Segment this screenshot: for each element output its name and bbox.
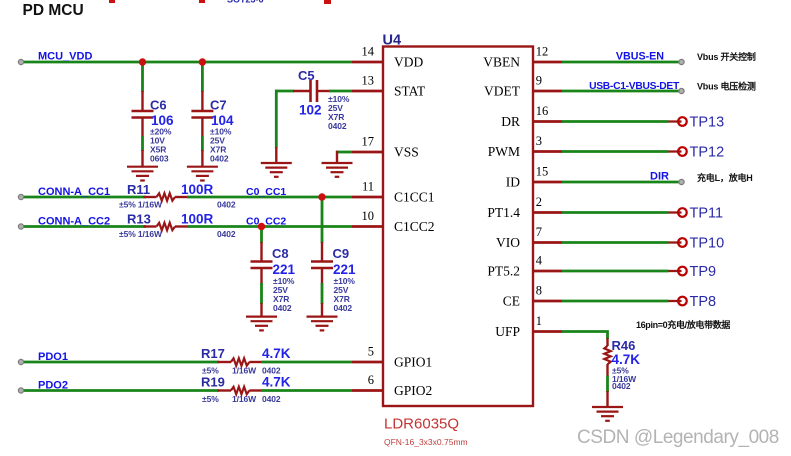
svg-text:2: 2 (536, 195, 542, 209)
pin 6 GPIO2 (U4 left) (352, 373, 432, 398)
svg-text:9: 9 (536, 74, 542, 88)
junction at C7 (199, 58, 206, 65)
test point TP11 (668, 208, 686, 217)
ground (C8) (246, 317, 277, 331)
svg-text:221: 221 (273, 262, 296, 277)
wire MCU_VDD (21, 61, 352, 64)
svg-text:PDO2: PDO2 (38, 379, 68, 391)
wire C6 bottom (green) (141, 136, 144, 151)
resistor R46 (604, 346, 610, 365)
svg-text:TP12: TP12 (690, 145, 725, 161)
wire R46 bottom (green) (606, 376, 609, 393)
svg-text:PT5.2: PT5.2 (487, 264, 520, 279)
wire C8 ground stub (260, 303, 262, 317)
wire C6 ground stub (141, 150, 143, 167)
test point TP9 (668, 267, 686, 276)
test point TP10 (668, 238, 686, 247)
svg-text:U4: U4 (383, 33, 402, 49)
svg-text:0402: 0402 (273, 303, 292, 313)
node MCU_VDD start dot (18, 59, 23, 64)
ground (C9) (307, 317, 338, 331)
svg-text:15: 15 (536, 165, 549, 179)
ground (VSS) (322, 163, 353, 177)
svg-text:LDR6035Q: LDR6035Q (384, 416, 459, 433)
top edge remnant mark 2 (199, 0, 205, 3)
svg-text:VIO: VIO (496, 235, 520, 250)
svg-text:C0_CC1: C0_CC1 (246, 186, 286, 198)
pin 13 STAT (U4 left) (352, 74, 426, 99)
node USB-C1-VBUS-DET end dot (679, 88, 684, 93)
node PDO1 start dot (18, 359, 23, 364)
svg-text:102: 102 (299, 103, 322, 118)
svg-text:±5% 1/16W: ±5% 1/16W (119, 200, 163, 210)
capacitor C9 (311, 262, 333, 269)
resistor R13 (157, 223, 176, 230)
wire PDO1 right (green) (261, 361, 352, 364)
resistor R46 leads (606, 338, 608, 377)
svg-text:PDO1: PDO1 (38, 351, 68, 363)
capacitor C7 leads (201, 91, 203, 136)
svg-text:充电L，放电H: 充电L，放电H (697, 172, 753, 183)
test point TP8 (668, 297, 686, 306)
svg-text:VSS: VSS (394, 145, 419, 160)
svg-text:12: 12 (536, 45, 549, 59)
top edge remnant mark 1 (109, 0, 115, 3)
svg-text:7: 7 (536, 225, 542, 239)
wire TP11 (green) (562, 211, 669, 214)
wire TP13 (green) (562, 120, 669, 123)
svg-text:0603: 0603 (150, 154, 169, 164)
svg-text:QFN-16_3x3x0.75mm: QFN-16_3x3x0.75mm (384, 437, 468, 447)
svg-text:0402: 0402 (334, 303, 353, 313)
ground (C5) (261, 163, 292, 177)
wire C7 top lead (green) (201, 63, 204, 92)
pin 12 VBEN (U4 right) (483, 45, 562, 70)
svg-text:100R: 100R (181, 182, 214, 197)
svg-text:0402: 0402 (328, 121, 347, 131)
wire C8 top (green) (260, 228, 263, 243)
pin 5 GPIO1 (U4 left) (352, 345, 432, 370)
svg-text:±5%: ±5% (202, 394, 219, 404)
pin 14 VDD (U4 left) (352, 45, 423, 70)
svg-text:DIR: DIR (650, 170, 669, 182)
wire CC1 right (green) (187, 196, 352, 199)
top edge remnant mark 3 (324, 0, 331, 4)
svg-text:DR: DR (501, 114, 520, 129)
svg-text:STAT: STAT (394, 84, 426, 99)
ground (C6) (127, 167, 158, 181)
svg-text:4.7K: 4.7K (262, 375, 291, 390)
pin 7 VIO (U4 right) (496, 225, 562, 250)
svg-text:C9: C9 (333, 246, 350, 261)
svg-text:TP11: TP11 (690, 206, 724, 222)
svg-text:PT1.4: PT1.4 (487, 205, 520, 220)
capacitor C5 leads (293, 90, 330, 92)
svg-text:C7: C7 (210, 98, 227, 113)
wire PDO2 right (green) (261, 389, 352, 392)
wire C5 ground stub (275, 147, 277, 163)
node CONN-A_CC1 start dot (18, 194, 23, 199)
svg-text:C8: C8 (272, 246, 289, 261)
wire VSS (green) (337, 151, 352, 154)
wire R46 ground stub (606, 391, 608, 407)
test point TP13 (668, 117, 686, 126)
pin 8 CE (U4 right) (503, 284, 562, 309)
svg-text:C1CC1: C1CC1 (394, 190, 435, 205)
resistor R17 leads (218, 361, 262, 363)
svg-text:C5: C5 (298, 68, 315, 83)
ground (C7) (187, 167, 218, 181)
node DIR end dot (679, 179, 684, 184)
resistor R11 (157, 193, 176, 200)
wire PDO2 left (green) (21, 389, 219, 392)
wire USB-C1-VBUS-DET (green) (562, 90, 680, 93)
svg-text:6: 6 (368, 373, 374, 387)
wire CONN-A_CC1 left (green) (21, 196, 146, 199)
node VBUS-EN end dot (679, 59, 684, 64)
svg-text:17: 17 (362, 135, 375, 149)
wire C7 ground stub (201, 150, 203, 167)
node CONN-A_CC2 start dot (18, 224, 23, 229)
pin 9 VDET (U4 right) (484, 74, 562, 99)
svg-text:0402: 0402 (612, 381, 631, 391)
wire CC2 right (green) (187, 225, 352, 228)
svg-text:11: 11 (362, 180, 374, 194)
svg-text:0402: 0402 (217, 200, 236, 210)
svg-text:CE: CE (503, 294, 520, 309)
svg-text:8: 8 (536, 284, 542, 298)
svg-text:VBEN: VBEN (483, 55, 520, 70)
svg-text:C0_CC2: C0_CC2 (246, 215, 286, 227)
svg-text:16: 16 (536, 104, 549, 118)
svg-text:R17: R17 (201, 346, 225, 361)
svg-text:R13: R13 (127, 212, 151, 227)
junction at C6 (139, 58, 146, 65)
pin 3 PWM (U4 right) (488, 134, 562, 159)
resistor R19 leads (218, 389, 262, 391)
svg-text:USB-C1-VBUS-DET: USB-C1-VBUS-DET (589, 81, 680, 92)
svg-text:TP8: TP8 (690, 294, 717, 310)
wire C9 ground stub (321, 303, 323, 317)
wire CONN-A_CC2 left (green) (21, 225, 146, 228)
resistor R17 (231, 358, 250, 365)
wire STAT right (green) (329, 90, 352, 93)
svg-text:0402: 0402 (217, 229, 236, 239)
resistor R19 (231, 387, 250, 394)
junction CC1/C9 (318, 193, 325, 200)
svg-text:R11: R11 (127, 182, 150, 197)
svg-text:Vbus 电压检测: Vbus 电压检测 (697, 81, 756, 92)
wire TP9 (green) (562, 270, 669, 273)
svg-text:4.7K: 4.7K (262, 346, 291, 361)
pin 4 PT5.2 (U4 right) (487, 254, 562, 279)
wire UFP (green) (562, 332, 608, 340)
resistor R11 leads (144, 196, 189, 198)
svg-text:TP9: TP9 (690, 264, 717, 280)
svg-text:R46: R46 (612, 338, 636, 353)
svg-text:221: 221 (333, 262, 356, 277)
svg-text:C6: C6 (150, 98, 167, 113)
wire DIR (green) (562, 181, 680, 184)
pin 16 DR (U4 right) (501, 104, 562, 129)
svg-text:MCU_VDD: MCU_VDD (38, 51, 92, 63)
svg-text:1: 1 (536, 314, 542, 328)
svg-text:1/16W: 1/16W (232, 366, 257, 376)
svg-text:Vbus 开关控制: Vbus 开关控制 (697, 51, 756, 62)
junction CC2/C8 (258, 223, 265, 230)
svg-text:GPIO2: GPIO2 (394, 383, 432, 398)
svg-text:5: 5 (368, 345, 374, 359)
svg-text:100R: 100R (181, 212, 214, 227)
svg-text:3: 3 (536, 134, 542, 148)
wire TP10 (green) (562, 241, 669, 244)
ground (R46) (592, 407, 623, 421)
svg-text:VDD: VDD (394, 55, 423, 70)
wire STAT left (green) (276, 90, 294, 93)
wire C7 bottom (green) (201, 136, 204, 151)
pin 11 C1CC1 (U4 left) (352, 180, 435, 205)
capacitor C7 (191, 111, 213, 118)
wire C9 bottom (green) (321, 283, 324, 304)
svg-text:1/16W: 1/16W (232, 394, 257, 404)
svg-text:4: 4 (536, 254, 543, 268)
svg-text:14: 14 (362, 45, 375, 59)
svg-text:VDET: VDET (484, 84, 521, 99)
svg-text:13: 13 (362, 74, 375, 88)
wire C5 down branch (green) (275, 90, 278, 148)
svg-text:TP13: TP13 (690, 115, 725, 131)
wire VBUS-EN (green) (562, 61, 680, 64)
svg-text:GPIO1: GPIO1 (394, 355, 432, 370)
svg-text:VBUS-EN: VBUS-EN (616, 51, 664, 63)
wire TP8 (green) (562, 300, 669, 303)
wire PDO1 left (green) (21, 361, 219, 364)
svg-text:0402: 0402 (262, 394, 281, 404)
capacitor C9 leads (321, 242, 323, 284)
svg-text:UFP: UFP (495, 324, 520, 339)
capacitor C5 (311, 80, 318, 102)
svg-text:CONN-A_CC1: CONN-A_CC1 (38, 186, 110, 198)
pin 15 ID (U4 right) (506, 165, 562, 190)
pin 2 PT1.4 (U4 right) (487, 195, 562, 220)
resistor R13 leads (144, 225, 189, 227)
svg-text:PD MCU: PD MCU (23, 2, 84, 19)
wire C6 top lead (green) (141, 63, 144, 92)
svg-text:C1CC2: C1CC2 (394, 219, 435, 234)
svg-text:ID: ID (506, 175, 520, 190)
svg-text:CSDN @Legendary_008: CSDN @Legendary_008 (577, 427, 779, 448)
svg-text:16pin=0充电/放电带数据: 16pin=0充电/放电带数据 (636, 319, 730, 330)
svg-text:±5% 1/16W: ±5% 1/16W (119, 229, 163, 239)
wire C8 bottom (green) (260, 283, 263, 304)
wire TP12 (green) (562, 150, 669, 153)
node PDO2 start dot (18, 388, 23, 393)
svg-text:0402: 0402 (210, 154, 229, 164)
pin 10 C1CC2 (U4 left) (352, 209, 435, 234)
svg-text:R19: R19 (201, 375, 225, 390)
capacitor C6 leads (141, 91, 143, 136)
capacitor C8 (251, 262, 273, 269)
wire VSS ground stub (336, 151, 338, 163)
IC U4 body (383, 47, 533, 407)
svg-text:CONN-A_CC2: CONN-A_CC2 (38, 215, 110, 227)
svg-text:10: 10 (362, 209, 375, 223)
capacitor C6 (132, 111, 154, 118)
test point TP12 (668, 147, 686, 156)
svg-text:SOT23-6: SOT23-6 (227, 0, 264, 5)
pin 17 VSS (U4 left) (352, 135, 419, 160)
wire C9 top (green) (321, 198, 324, 243)
svg-text:TP10: TP10 (690, 236, 725, 252)
capacitor C8 leads (260, 242, 262, 284)
pin 1 UFP (U4 right) (495, 314, 562, 339)
svg-text:PWM: PWM (488, 144, 520, 159)
